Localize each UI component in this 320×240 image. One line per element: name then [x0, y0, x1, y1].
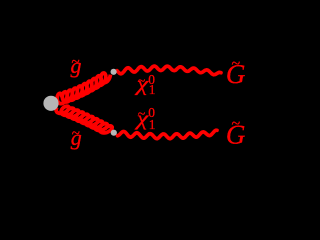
gluino line g2 (lower curly propagator)	[56, 106, 112, 133]
svg-text:~: ~	[72, 126, 80, 142]
svg-text:~: ~	[232, 55, 241, 72]
svg-text:~: ~	[138, 74, 146, 89]
gluino line g1 (upper curly propagator)	[57, 73, 110, 104]
svg-text:~: ~	[232, 116, 241, 133]
wavy line W1 (upper neutralino to gravitino)	[117, 66, 221, 75]
wavy line W2 (lower neutralino to gravitino)	[118, 130, 218, 138]
svg-text:1: 1	[149, 117, 156, 132]
vertex dot V2 (lower)	[111, 130, 117, 136]
svg-text:1: 1	[149, 82, 156, 97]
svg-text:~: ~	[138, 107, 146, 122]
interaction blob	[43, 96, 58, 111]
svg-text:~: ~	[72, 54, 80, 70]
vertex dot V1 (upper)	[111, 69, 117, 75]
